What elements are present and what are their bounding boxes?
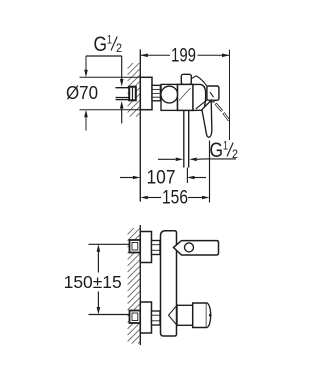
swing dashes <box>216 104 230 121</box>
lever paddle <box>207 86 219 100</box>
union nuts (bottom view) <box>152 241 161 255</box>
lever arm with hole <box>174 241 219 255</box>
dimension 156 <box>209 141 211 203</box>
body block under ball <box>161 84 178 110</box>
wall face line (bottom view) <box>139 225 141 345</box>
cube on top <box>181 74 191 84</box>
G1/2 arrows at outlet pipe <box>158 158 176 160</box>
wall nuts <box>130 240 141 253</box>
svg-text:1: 1 <box>223 139 228 153</box>
svg-text:199: 199 <box>171 46 196 67</box>
escutcheon (top view) <box>140 77 152 109</box>
dimension 199 <box>140 50 229 140</box>
extension lines for 150±15 <box>89 243 130 245</box>
wall (top view) hatching <box>128 63 141 117</box>
label G 1/2 (bottom of top view) <box>210 139 239 163</box>
svg-text:107: 107 <box>147 168 176 189</box>
cap bottom diagonal (lever underside) <box>196 100 207 109</box>
union nut (top view) <box>152 85 160 101</box>
wall face line (top view), also extension line for 199/107/156 <box>139 49 141 201</box>
svg-text:156: 156 <box>162 188 188 209</box>
G1/2 leader arrow down to pipe <box>120 79 124 87</box>
body bar <box>161 231 177 336</box>
G1/2 leader underline <box>86 55 122 57</box>
svg-text:Ø70: Ø70 <box>66 83 98 103</box>
pipe behind wall (top view) <box>116 88 133 100</box>
socket in wall <box>129 87 136 101</box>
lever grip (hanging) <box>202 100 212 137</box>
svg-text:2: 2 <box>116 41 122 55</box>
outlet pipe (downward) <box>183 110 185 167</box>
svg-text:1: 1 <box>107 33 112 47</box>
svg-text:G: G <box>94 33 108 56</box>
wall (bottom view) hatching <box>128 228 141 344</box>
knob assembly <box>169 305 178 325</box>
dimension 150±15 <box>97 244 101 252</box>
svg-text:150±15: 150±15 <box>64 272 122 292</box>
cartridge housing <box>178 84 194 110</box>
front cap <box>193 84 206 110</box>
ball joint <box>161 86 178 103</box>
lever neck over cap <box>192 76 207 86</box>
paddle foot <box>209 100 214 102</box>
label G 1/2 (top left) <box>94 33 123 57</box>
dimension 107 <box>186 168 188 184</box>
escutcheons (bottom view) <box>140 232 151 263</box>
dimension Ø70 <box>80 56 143 131</box>
G1/2 lower arrow up to pipe bottom <box>120 101 124 109</box>
